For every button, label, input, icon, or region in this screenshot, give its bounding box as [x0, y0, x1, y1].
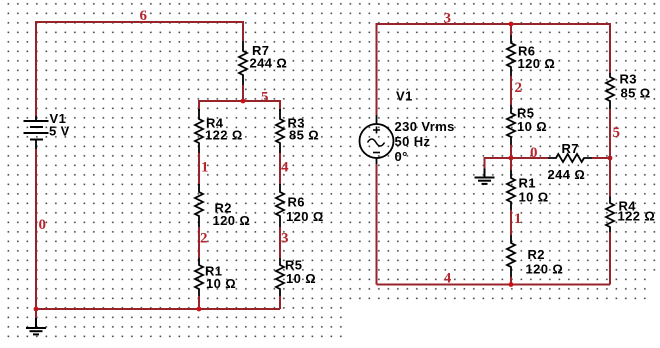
resistor R1 value label: [519, 176, 549, 205]
wire: [377, 284, 611, 286]
resistor R1: [195, 258, 203, 296]
svg-text:0: 0: [39, 217, 47, 233]
svg-text:R3: R3: [620, 72, 637, 87]
node 1: [201, 160, 209, 176]
resistor R4 value label: [205, 116, 243, 143]
ac source V1: [360, 115, 394, 164]
svg-text:10 Ω: 10 Ω: [519, 190, 549, 205]
resistor R4: [195, 109, 203, 153]
node 1: [514, 211, 522, 227]
resistor R6: [507, 35, 515, 76]
svg-text:R7: R7: [562, 141, 579, 156]
wire: [510, 76, 512, 105]
svg-text:5: 5: [261, 90, 269, 106]
svg-text:R1: R1: [519, 176, 536, 191]
svg-text:5: 5: [613, 125, 621, 141]
wire: [377, 24, 611, 115]
resistor R3: [606, 73, 614, 109]
resistor R4: [606, 197, 614, 233]
wire: [510, 277, 512, 285]
resistor R5: [276, 258, 284, 296]
svg-text:122 Ω: 122 Ω: [205, 128, 243, 143]
wire: [279, 296, 281, 309]
svg-text:230 Vrms: 230 Vrms: [395, 119, 455, 134]
resistor R6 value label: [286, 195, 324, 225]
svg-text:3: 3: [281, 231, 289, 247]
wire: [510, 158, 512, 170]
wire: [510, 24, 512, 35]
wire: [609, 109, 611, 197]
svg-text:4: 4: [444, 270, 452, 286]
ac source V1 label: [395, 89, 455, 165]
wire: [199, 101, 280, 111]
svg-text:244 Ω: 244 Ω: [548, 167, 586, 182]
svg-text:3: 3: [444, 11, 452, 27]
resistor R6: [276, 184, 284, 227]
svg-text:85 Ω: 85 Ω: [621, 86, 651, 101]
wire: [592, 157, 610, 159]
junction: [34, 307, 39, 312]
wire: [242, 85, 244, 101]
wire: [376, 164, 378, 285]
node 3: [444, 11, 452, 27]
node 3: [281, 231, 289, 247]
node 0: [530, 145, 538, 161]
svg-text:6: 6: [140, 8, 148, 24]
junction: [608, 156, 613, 161]
wire: [485, 158, 549, 169]
wire: [198, 296, 200, 309]
wire: [279, 153, 281, 185]
svg-text:120 Ω: 120 Ω: [286, 209, 324, 224]
node 6: [140, 8, 148, 24]
resistor R7: [548, 154, 592, 162]
wire: [35, 149, 37, 309]
svg-text:10 Ω: 10 Ω: [286, 271, 316, 286]
junction: [509, 156, 514, 161]
svg-text:4: 4: [281, 160, 289, 176]
battery V1: [24, 116, 49, 149]
node 4: [444, 270, 452, 286]
svg-text:244 Ω: 244 Ω: [250, 56, 288, 71]
resistor R7: [239, 41, 247, 85]
wire: [36, 22, 243, 116]
resistor R6 value label: [518, 44, 556, 72]
node 5: [613, 125, 621, 141]
svg-text:10 Ω: 10 Ω: [517, 119, 547, 134]
node 2: [515, 80, 523, 96]
resistor R7 value label: [250, 43, 288, 71]
wire: [510, 145, 512, 158]
resistor R5 value label: [517, 106, 547, 135]
node 2: [200, 231, 208, 247]
node 4: [281, 160, 289, 176]
wire: [510, 210, 512, 235]
wire: [198, 153, 200, 185]
node 5: [261, 90, 269, 106]
wire: [609, 232, 611, 285]
resistor R2: [507, 235, 515, 277]
svg-text:5 V: 5 V: [49, 124, 70, 139]
svg-text:122 Ω: 122 Ω: [618, 209, 656, 224]
resistor R2 value label: [526, 247, 564, 277]
svg-text:120 Ω: 120 Ω: [526, 262, 564, 277]
svg-text:50 Hz: 50 Hz: [395, 134, 431, 149]
resistor R2 value label: [213, 201, 251, 229]
svg-text:1: 1: [514, 211, 522, 227]
resistor R3 value label: [288, 116, 320, 143]
wire: [198, 227, 200, 258]
resistor R3 value label: [620, 72, 651, 101]
svg-text:85 Ω: 85 Ω: [289, 128, 319, 143]
svg-text:2: 2: [515, 80, 523, 96]
node 0: [39, 217, 47, 233]
resistor R3: [276, 109, 284, 153]
junction: [509, 282, 514, 287]
junction: [509, 22, 514, 27]
svg-text:10 Ω: 10 Ω: [206, 276, 236, 291]
resistor R1: [507, 170, 515, 210]
svg-text:1: 1: [201, 160, 209, 176]
svg-text:V1: V1: [396, 89, 413, 104]
resistor R7 value label: [548, 141, 586, 182]
svg-text:0°: 0°: [395, 149, 408, 164]
svg-text:120 Ω: 120 Ω: [518, 56, 556, 71]
svg-text:R2: R2: [528, 247, 545, 262]
resistor R5: [507, 105, 515, 145]
wire: [36, 308, 280, 310]
resistor R2: [195, 184, 203, 227]
resistor R4 value label: [618, 199, 656, 224]
wire: [279, 227, 281, 258]
junction: [197, 307, 202, 312]
svg-text:R6: R6: [288, 195, 305, 210]
resistor R5 value label: [285, 258, 316, 287]
resistor R1 value label: [205, 264, 236, 292]
battery V1 label: [49, 111, 70, 139]
ground: [26, 309, 46, 334]
ground: [475, 158, 495, 184]
junction: [241, 99, 246, 104]
svg-text:2: 2: [200, 231, 208, 247]
svg-text:120 Ω: 120 Ω: [213, 213, 251, 228]
